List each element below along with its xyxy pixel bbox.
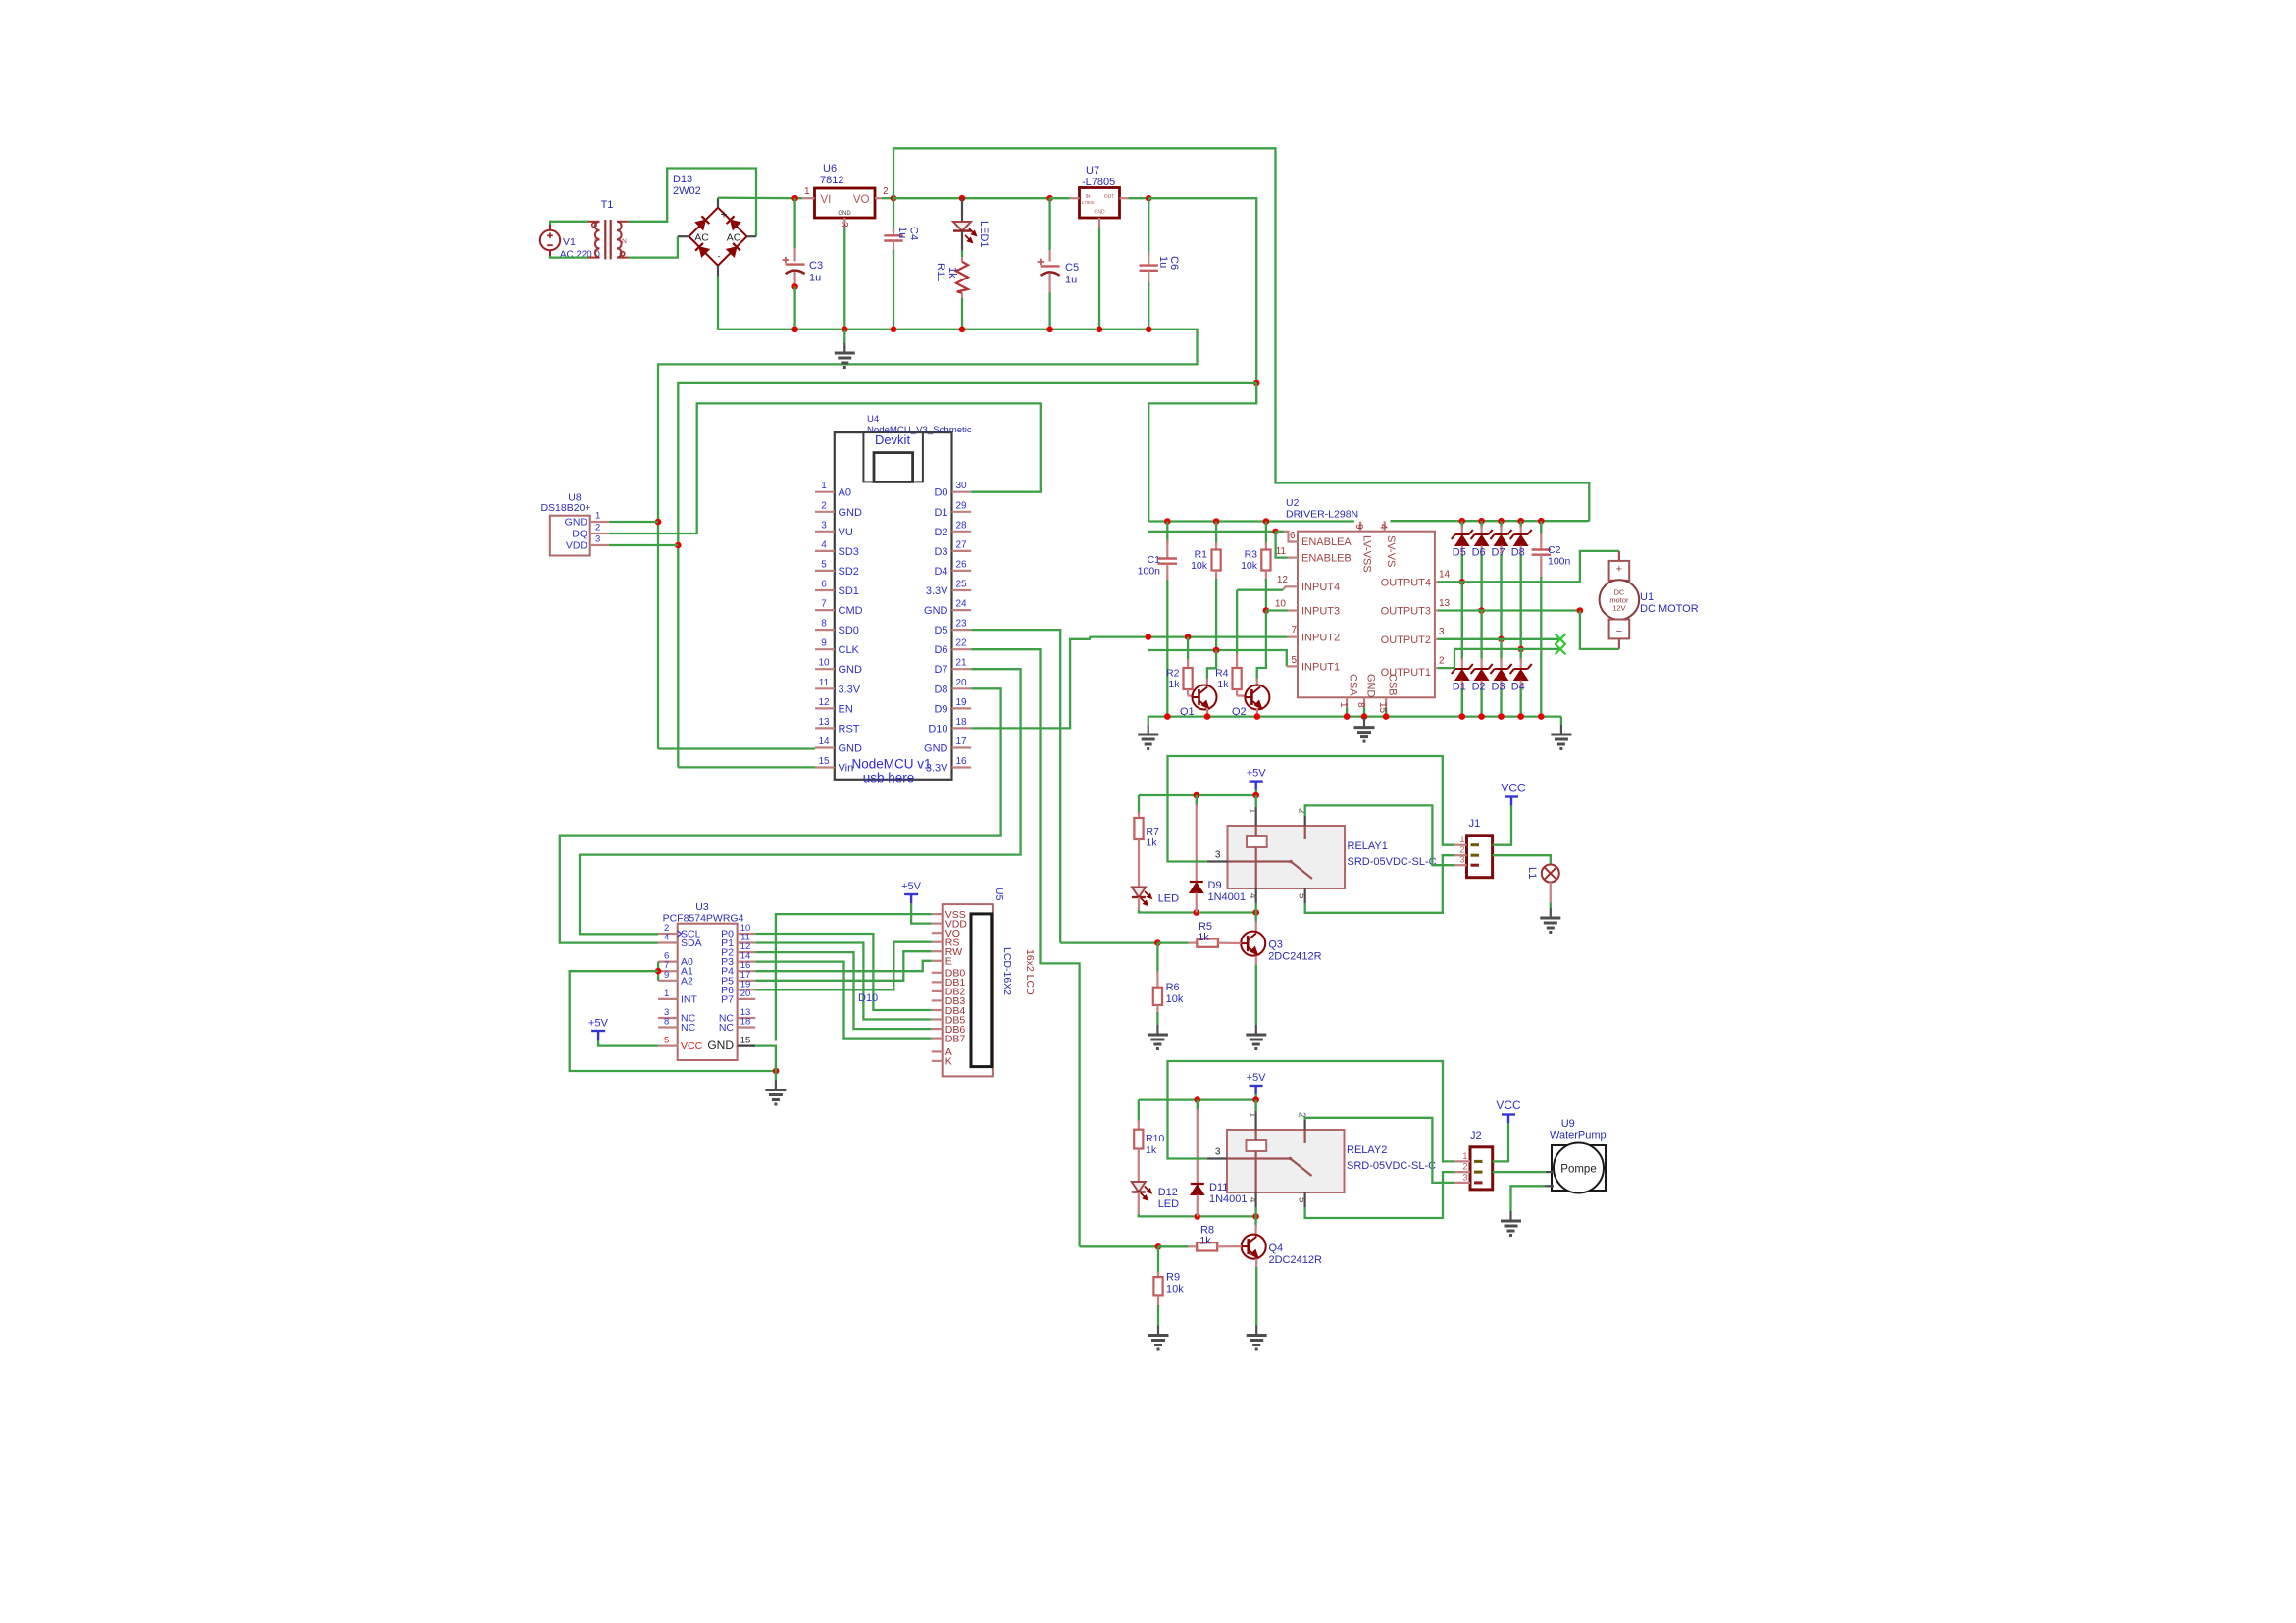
wire +5V from U7 OUT — [1148, 198, 1256, 383]
wire +12V to C5/U7 — [893, 197, 1050, 199]
svg-text:EN: EN — [839, 703, 853, 715]
U4 pin 13 RST — [815, 727, 835, 729]
svg-text:SDA: SDA — [681, 938, 702, 949]
junction Q2 gnd — [1254, 713, 1261, 720]
diode D2 — [1471, 664, 1493, 681]
junction C1 gnd — [1164, 713, 1171, 720]
svg-text:GND: GND — [839, 507, 863, 519]
svg-text:L7805: L7805 — [1082, 200, 1095, 205]
capacitor C3 bottom lead — [793, 272, 795, 284]
J1 pin 2 — [1454, 854, 1467, 856]
svg-text:GND: GND — [707, 1039, 734, 1052]
capacitor C4 bottom lead — [893, 241, 894, 254]
svg-text:1u: 1u — [896, 227, 908, 238]
svg-text:K: K — [945, 1056, 952, 1068]
relay2 pin4 stub — [1254, 1192, 1256, 1207]
U2 pin 6 ENABLEA stub — [1276, 531, 1284, 533]
wire driver gnd rail — [1148, 715, 1561, 717]
svg-text:1: 1 — [1247, 1112, 1257, 1118]
svg-text:18: 18 — [740, 1017, 751, 1028]
U3 pin 10 P0 — [738, 933, 756, 935]
wire A0-A2 bracket — [657, 962, 659, 981]
U2 pin 11 stub — [1288, 556, 1298, 558]
svg-text:OUTPUT3: OUTPUT3 — [1381, 606, 1431, 618]
U4 pin 10 GND — [815, 668, 835, 670]
+5V symbol near U5 — [904, 894, 918, 903]
svg-text:3.3V: 3.3V — [926, 585, 948, 597]
svg-text:1: 1 — [1459, 835, 1464, 845]
capacitor C3 top lead — [793, 248, 795, 262]
svg-text:5: 5 — [1292, 655, 1298, 666]
wire to D1 — [1461, 582, 1463, 660]
svg-text:3: 3 — [1462, 1172, 1467, 1183]
U5 pin DB2 — [932, 990, 943, 992]
svg-text:Vin: Vin — [839, 763, 854, 775]
D11 cathode lead — [1197, 1109, 1199, 1184]
wire to D3 — [1500, 639, 1502, 660]
capacitor C4 top lead — [893, 228, 894, 235]
D9 cathode lead — [1196, 804, 1198, 882]
U5 pin DB5 — [932, 1018, 943, 1020]
C2 top lead — [1540, 533, 1542, 549]
relay RELAY2 SRD-05VDC-SL-C — [1227, 1130, 1345, 1192]
svg-text:L1: L1 — [1526, 867, 1538, 879]
svg-text:C4: C4 — [908, 227, 920, 240]
svg-text:3: 3 — [1215, 850, 1221, 861]
svg-text:2: 2 — [1439, 656, 1445, 667]
svg-text:NC: NC — [719, 1022, 735, 1034]
Q3 emitter lead — [1255, 956, 1257, 965]
svg-text:10: 10 — [1275, 599, 1287, 610]
wire P5 to RW — [755, 951, 932, 981]
svg-text:+5V: +5V — [1247, 1072, 1267, 1084]
wire +5V to VDD — [911, 903, 932, 924]
U3 pin 17 P5 — [738, 980, 756, 982]
U3 pin 5 VCC — [658, 1044, 678, 1046]
wire T1 sec top to bridge right AC — [629, 169, 757, 237]
wire relay2 +5V line — [1139, 1098, 1256, 1100]
relay2 pin5 stub — [1303, 1192, 1305, 1207]
wire R4 top — [1236, 590, 1238, 655]
svg-text:LED: LED — [1158, 1198, 1179, 1210]
U2 pin 10 stub — [1288, 609, 1298, 611]
svg-text:4: 4 — [1247, 1197, 1257, 1203]
wire R9 top — [1157, 1246, 1159, 1274]
svg-text:P7: P7 — [721, 993, 734, 1005]
wire rail left end down — [1148, 717, 1149, 725]
svg-text:29: 29 — [955, 500, 967, 511]
svg-text:D6: D6 — [1472, 547, 1486, 559]
svg-text:VCC: VCC — [1501, 782, 1526, 795]
svg-text:GND: GND — [839, 664, 863, 676]
junction U3 gnd — [773, 1068, 780, 1075]
junction enable — [1272, 529, 1279, 535]
U5 pin DB7 — [932, 1037, 943, 1039]
svg-text:usb here: usb here — [863, 771, 915, 786]
resistor R11 (zigzag) — [956, 262, 968, 293]
R8 right lead to Q4 base — [1217, 1245, 1242, 1247]
svg-text:INPUT3: INPUT3 — [1301, 606, 1340, 618]
wire to R10 — [1138, 1100, 1140, 1122]
svg-text:D6: D6 — [934, 644, 947, 656]
VCC power symbol J2 — [1502, 1115, 1515, 1124]
svg-text:U5: U5 — [994, 888, 1005, 901]
U3 pin 13 NC — [738, 1017, 756, 1019]
U3 pin 11 P1 — [738, 941, 756, 943]
svg-text:DC MOTOR: DC MOTOR — [1640, 603, 1699, 615]
junction D5 top — [1459, 518, 1466, 525]
U5 pin K — [932, 1060, 943, 1062]
U2 pin 3 stub — [1435, 638, 1438, 640]
LED indicator relay1 — [1132, 888, 1146, 898]
wire INPUT1 to Q1 collector — [1207, 650, 1216, 680]
svg-text:4: 4 — [821, 539, 827, 550]
wire down to C6 — [1148, 198, 1149, 257]
Q4 emitter lead — [1255, 1259, 1257, 1267]
svg-text:11: 11 — [819, 678, 830, 688]
capacitor C1 bottom lead — [1166, 564, 1168, 582]
D6 cathode lead — [1480, 526, 1482, 534]
junction rail — [959, 327, 966, 333]
regulator U7 L7805 — [1080, 188, 1120, 219]
svg-text:1: 1 — [1462, 1151, 1467, 1162]
wire R6 to gnd — [1156, 1012, 1158, 1025]
wire C2 to gnd rail — [1540, 577, 1542, 717]
wire to R7 — [1138, 795, 1140, 814]
svg-text:CMD: CMD — [839, 605, 863, 617]
wire C5 to rail — [1048, 292, 1050, 330]
svg-text:1N4001: 1N4001 — [1209, 1193, 1248, 1205]
U4 pin 11 3.3V — [815, 687, 835, 689]
capacitor C5 top lead — [1048, 250, 1050, 262]
temperature sensor U8 DS18B20+ — [550, 516, 590, 556]
VCC power symbol J1 — [1505, 797, 1518, 806]
U3 pin 1 INT — [658, 998, 678, 1000]
U2 bottom pin 1 stub — [1346, 697, 1348, 707]
junction R9 top — [1155, 1243, 1162, 1250]
R6 bottom lead — [1156, 1005, 1158, 1014]
wire D6 top — [1480, 521, 1482, 528]
svg-text:+: + — [1616, 564, 1622, 576]
wire D10 to L298N INPUT2 — [971, 637, 1287, 729]
svg-text:E: E — [945, 956, 952, 968]
svg-text:D9: D9 — [934, 703, 947, 715]
wire D6 down to relay2 base — [971, 649, 1079, 1246]
wire U6 GND pin to rail — [843, 228, 845, 330]
junction D4 gnd — [1517, 713, 1524, 720]
wire C2 top — [1540, 521, 1542, 534]
wire D5 to base line — [1060, 941, 1157, 943]
J2 pin 2 — [1454, 1171, 1470, 1173]
junction Q4 collector — [1252, 1213, 1259, 1220]
svg-text:11: 11 — [1276, 546, 1287, 557]
U4 pin 29 D1 — [952, 511, 972, 513]
svg-text:8: 8 — [664, 1017, 669, 1028]
wire relay2 no to J2 pin2 — [1305, 1172, 1454, 1218]
transistor Q2 — [1245, 685, 1269, 710]
U4 pin 4 SD3 — [815, 550, 835, 552]
relay1 pin4 stub — [1255, 888, 1257, 903]
D3 cathode lead — [1500, 658, 1502, 669]
D2 anode lead — [1480, 681, 1482, 691]
resistor R10 — [1134, 1130, 1143, 1149]
svg-text:CSA: CSA — [1348, 674, 1359, 696]
relay RELAY1 SRD-05VDC-SL-C — [1228, 826, 1346, 888]
wire P3 to DB7 — [755, 962, 932, 1039]
wire VCC to J1 pin1 — [1493, 805, 1511, 844]
svg-text:INPUT2: INPUT2 — [1301, 633, 1340, 644]
svg-text:GND: GND — [838, 211, 851, 217]
U4 pin 3 VU — [815, 531, 835, 533]
D1 anode lead — [1461, 681, 1463, 691]
ground driver left — [1138, 725, 1158, 749]
junction rail — [791, 327, 798, 333]
wire to ENABLEB — [1276, 532, 1288, 558]
U4 pin 15 Vin — [815, 766, 835, 768]
U3 SCL clock arrow — [678, 931, 682, 937]
svg-text:D2: D2 — [934, 527, 947, 538]
junction D1 gnd — [1459, 713, 1466, 720]
svg-text:OUT: OUT — [1104, 194, 1115, 200]
U4 pin 23 D5 — [952, 629, 972, 631]
diode D4 — [1510, 664, 1532, 681]
ground Q4 — [1247, 1326, 1267, 1350]
U4 pin 21 D7 — [952, 668, 972, 670]
U5 pin RW — [932, 950, 943, 952]
svg-text:U1: U1 — [1640, 591, 1654, 603]
svg-text:CLK: CLK — [839, 644, 860, 656]
LED1 top lead — [961, 198, 963, 221]
svg-text:+5V: +5V — [901, 881, 922, 892]
svg-text:D4: D4 — [934, 566, 947, 578]
wire C4 to rail — [893, 250, 894, 330]
U2 pin 9 stub — [1359, 522, 1361, 532]
svg-text:U2: U2 — [1286, 497, 1300, 509]
svg-text:10k: 10k — [1166, 993, 1184, 1005]
svg-text:RELAY1: RELAY1 — [1348, 840, 1388, 852]
junction R6 top — [1154, 939, 1161, 946]
no-connect X OUTPUT1 — [1556, 643, 1566, 654]
U7 OUT stub — [1120, 197, 1129, 199]
D1 cathode lead — [1461, 658, 1463, 669]
junction D7 top — [1498, 518, 1505, 525]
wire to R8 — [1158, 1245, 1189, 1247]
transistor Q3 — [1241, 932, 1265, 956]
R7 bottom lead — [1138, 839, 1140, 888]
U4 pin 9 CLK — [815, 648, 835, 650]
svg-text:6: 6 — [821, 580, 827, 590]
svg-text:3.3V: 3.3V — [839, 684, 861, 695]
svg-text:Q4: Q4 — [1269, 1243, 1284, 1254]
U3 pin 3 NC — [658, 1017, 678, 1019]
junction D11 bottom — [1195, 1213, 1201, 1220]
svg-text:21: 21 — [955, 658, 967, 669]
U3 pin 14 P3 — [738, 960, 756, 962]
J2 pin 3 — [1454, 1182, 1470, 1184]
svg-text:-: - — [718, 252, 721, 262]
driver module U2 DRIVER-L298N — [1298, 532, 1435, 698]
capacitor C6 bottom lead — [1148, 271, 1149, 284]
wire relay2 bottom line — [1139, 1214, 1256, 1216]
svg-text:D9: D9 — [1208, 880, 1222, 891]
svg-text:DQ: DQ — [572, 529, 587, 540]
svg-text:1N4001: 1N4001 — [1208, 891, 1247, 903]
svg-text:1: 1 — [595, 511, 600, 522]
junction Q1 gnd — [1204, 713, 1211, 720]
junction D8 top — [1517, 518, 1524, 525]
R6 top lead — [1156, 971, 1158, 988]
ground Q3 — [1246, 1025, 1266, 1049]
transformer T1 — [588, 220, 629, 259]
capacitor C4 — [884, 235, 902, 240]
resistor R5 — [1197, 938, 1218, 946]
svg-text:12: 12 — [818, 697, 830, 708]
Q1 collector lead — [1206, 679, 1208, 686]
ground under U2 GND pin — [1354, 718, 1375, 742]
ground U3 — [765, 1081, 786, 1105]
wire OUTPUT2 no-connect — [1438, 638, 1560, 640]
wire to D2 — [1480, 611, 1482, 661]
svg-text:LCD-16X2: LCD-16X2 — [1001, 947, 1013, 995]
wire relay1 com to J1 pin3 — [1305, 805, 1454, 865]
U5 pin DB0 — [932, 972, 943, 974]
R3 top lead — [1265, 542, 1267, 550]
wire INPUT1 — [1148, 650, 1287, 666]
svg-text:2: 2 — [595, 523, 600, 533]
svg-text:2DC2412R: 2DC2412R — [1268, 951, 1321, 963]
U4 pin 22 D6 — [952, 648, 972, 650]
capacitor C6 top lead — [1148, 253, 1149, 265]
svg-text:10k: 10k — [1166, 1284, 1184, 1295]
svg-text:D2: D2 — [1472, 682, 1486, 693]
wire R3 bottom to Q2 collector — [1257, 611, 1266, 681]
R10 top lead — [1138, 1120, 1140, 1130]
relay2 pin2 stub — [1303, 1118, 1305, 1130]
I/O expander U3 PCF8574PWRG4 — [678, 924, 738, 1060]
junction C3 top — [791, 195, 798, 202]
svg-text:5: 5 — [821, 559, 827, 570]
wire D6 to output — [1480, 554, 1482, 611]
junction D9 bottom — [1194, 909, 1200, 916]
diode D7 — [1491, 530, 1512, 546]
svg-text:C6: C6 — [1168, 256, 1180, 270]
svg-text:CSB: CSB — [1387, 674, 1399, 696]
junction rail — [1146, 327, 1152, 333]
relay1 pin1 stub — [1255, 807, 1257, 826]
svg-text:LED: LED — [1158, 893, 1179, 905]
connector J1 — [1467, 836, 1493, 878]
wire relay1 bottom line — [1139, 910, 1256, 913]
svg-text:-L7805: -L7805 — [1082, 177, 1115, 188]
svg-text:1: 1 — [804, 186, 810, 197]
wire D1 to gnd — [1461, 688, 1463, 717]
Q1 emitter lead — [1206, 708, 1208, 717]
junction D3 gnd — [1498, 713, 1505, 720]
R4 bottom lead — [1236, 689, 1238, 696]
svg-text:D0: D0 — [934, 487, 947, 499]
wire D6 to relay2 base line — [1080, 1245, 1158, 1247]
resistor R9 — [1153, 1277, 1162, 1295]
U4 pin 14 GND — [815, 746, 835, 748]
wire U6 VO out — [882, 197, 893, 199]
junction bottom pin — [1344, 713, 1351, 720]
diode D3 — [1491, 664, 1512, 681]
D8 cathode lead — [1520, 526, 1522, 534]
junction INPUT3 — [1263, 607, 1270, 614]
svg-text:GND: GND — [1094, 210, 1105, 216]
relay1 pin3 stub — [1207, 860, 1228, 862]
svg-text:3.3V: 3.3V — [926, 763, 948, 775]
svg-text:20: 20 — [955, 678, 967, 688]
capacitor C5 — [1038, 259, 1060, 276]
Q2 collector lead — [1256, 679, 1258, 686]
capacitor C3 — [783, 257, 805, 274]
capacitor C2 — [1532, 550, 1551, 555]
svg-text:R3: R3 — [1245, 549, 1258, 561]
svg-text:7: 7 — [821, 599, 827, 610]
J2 pin 1 — [1454, 1160, 1470, 1162]
U3 pin 7 A1 — [658, 970, 678, 972]
LED bottom lead — [1138, 897, 1140, 913]
wire U7 OUT — [1128, 197, 1148, 199]
junction relay2 +5V — [1252, 1096, 1259, 1103]
junction C1 top — [1164, 518, 1171, 525]
wire INPUT3 — [1266, 609, 1288, 611]
wire D11 top — [1197, 1100, 1199, 1111]
D5 cathode lead — [1461, 526, 1463, 534]
junction R1 top — [1213, 518, 1220, 525]
wire motor - to OUTPUT3 — [1580, 611, 1619, 649]
svg-text:3: 3 — [1439, 627, 1445, 637]
svg-text:+5V: +5V — [1247, 768, 1267, 780]
svg-text:14: 14 — [818, 736, 830, 747]
junction bottom pin — [1383, 713, 1390, 720]
wire down to C4 — [893, 198, 894, 232]
R3 bottom lead — [1265, 571, 1267, 582]
svg-text:2: 2 — [883, 186, 889, 197]
svg-text:−: − — [1616, 626, 1622, 637]
svg-text:25: 25 — [955, 580, 967, 590]
U3 pin 19 P6 — [738, 989, 756, 990]
capacitor C5 bottom lead — [1048, 274, 1050, 292]
D9 anode lead — [1196, 893, 1198, 913]
svg-text:VU: VU — [839, 527, 853, 538]
wire D8 to U3 SDA — [560, 688, 1001, 942]
U4 pin 27 D3 — [952, 550, 972, 552]
junction D8 output — [1517, 646, 1524, 653]
svg-text:9: 9 — [1353, 524, 1364, 530]
svg-text:DS18B20+: DS18B20+ — [540, 502, 590, 514]
resistor R8 — [1197, 1243, 1217, 1250]
svg-text:DB7: DB7 — [945, 1033, 966, 1044]
junction D2 gnd — [1478, 713, 1485, 720]
svg-text:3: 3 — [1215, 1147, 1221, 1158]
junction D5 output — [1459, 579, 1466, 585]
wire V1 top to T1 — [550, 222, 588, 225]
U4 pin 28 D2 — [952, 531, 972, 533]
U4 pin 1 A0 — [815, 491, 835, 493]
wire U3 GND pin — [755, 1046, 776, 1071]
U4 pin 30 D0 — [952, 491, 972, 493]
wire D5 top — [1461, 521, 1463, 528]
U4 pin 25 3.3V — [952, 589, 972, 591]
wire OUTPUT1 no-connect — [1438, 649, 1560, 668]
svg-text:GND: GND — [839, 743, 863, 755]
svg-text:SRD-05VDC-SL-C: SRD-05VDC-SL-C — [1348, 856, 1437, 868]
U5 pin DB1 — [932, 981, 943, 983]
svg-text:6: 6 — [1290, 531, 1296, 541]
svg-text:D7: D7 — [1492, 547, 1505, 559]
